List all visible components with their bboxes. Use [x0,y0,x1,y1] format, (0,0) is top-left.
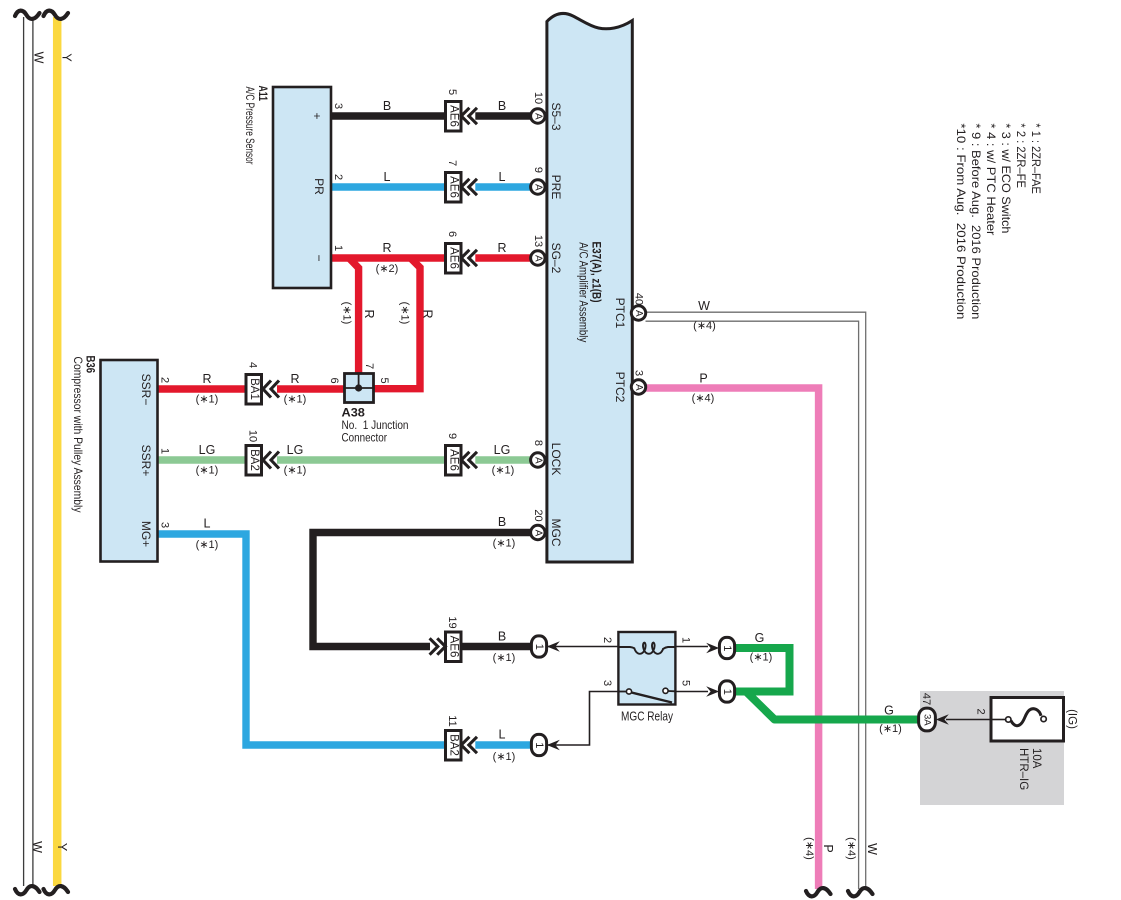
svg-text:R: R [362,309,376,318]
terminal circle 13/A SG-2 [531,235,545,265]
wire P from PTC2: pink, horizontal then vertical [646,388,819,889]
relay switch contact left [618,691,626,693]
svg-text:A: A [633,384,644,391]
svg-text:A11: A11 [256,86,270,102]
break squiggle top of W wire [15,11,40,19]
svg-text:3: 3 [601,680,613,686]
svg-text:1: 1 [721,645,733,651]
connector 5 AE6 [446,89,478,131]
break squiggle bottom of P wire [806,888,831,896]
svg-text:(∗1): (∗1) [750,652,773,664]
svg-text:(∗1): (∗1) [493,538,516,550]
svg-text:* 2 : 2ZR–FE: * 2 : 2ZR–FE [1014,123,1028,187]
connector 4 BA1 [246,362,279,404]
svg-text:SSR−: SSR− [139,374,153,406]
svg-text:3A: 3A [922,714,933,726]
svg-text:3: 3 [633,370,645,376]
svg-text:B: B [498,99,506,113]
svg-text:* 3 : w/ ECO Switch: * 3 : w/ ECO Switch [999,123,1013,233]
svg-text:11: 11 [446,715,458,726]
svg-text:10: 10 [532,92,544,104]
break squiggle top of Y wire [44,11,69,19]
svg-text:*10 : From Aug. 2016 Producti: *10 : From Aug. 2016 Production [954,123,968,319]
svg-text:LOCK: LOCK [549,443,563,476]
terminal oval 3A at fuse 47 [919,693,936,731]
svg-text:AE6: AE6 [448,449,460,471]
svg-text:PRE: PRE [549,175,563,200]
svg-text:A: A [532,457,543,464]
svg-text:R: R [497,241,506,255]
svg-text:BA2: BA2 [448,734,460,756]
svg-text:W: W [32,52,46,64]
svg-text:W: W [30,841,44,853]
relay MGC box [618,632,675,705]
svg-text:BA2: BA2 [248,449,260,471]
svg-text:SG–2: SG–2 [549,243,563,274]
svg-text:1: 1 [159,448,171,454]
wire B from 5AE6 to terminal 10 [475,112,530,119]
svg-text:2: 2 [601,637,613,643]
svg-text:BA1: BA1 [248,378,260,400]
terminal circle 9/A PRE [531,167,545,194]
svg-text:3: 3 [159,522,171,528]
svg-text:(∗1): (∗1) [399,302,411,325]
thin wire from relay pin1 to right oval [676,646,708,648]
svg-text:S5–3: S5–3 [549,102,563,130]
oval terminal 1 (black wire) [531,636,546,657]
arrowhead right of black oval [547,641,560,651]
svg-text:19: 19 [446,616,458,628]
svg-text:HTR–IG: HTR–IG [1017,748,1029,790]
fuse block grey background [920,691,1064,805]
svg-text:A: A [633,310,644,317]
block E37 A/C Amplifier Assembly (wavy top) [547,14,632,562]
svg-text:Compressor with Pulley Assembl: Compressor with Pulley Assembly [71,357,85,513]
svg-text:* 4 : w/ PTC Heater: * 4 : w/ PTC Heater [984,123,998,235]
wire L from B36 MG+ down and right to 11BA2 [157,534,446,745]
svg-text:R: R [290,372,299,386]
wire B from 19AE6 to oval terminal [462,643,533,650]
wire Y left vertical (yellow) [53,17,62,886]
svg-text:(∗1): (∗1) [196,465,219,477]
wire R branch right vertical to A38 pin5 [374,258,420,389]
arrowhead left of relay pin1 oval [706,643,719,653]
arrowhead right of 3A oval [936,714,949,724]
thin wire from 3A terminal to fuse [946,719,991,721]
connector 19 AE6 (chevrons on left pointing right) [430,616,461,661]
svg-text:MG+: MG+ [139,521,153,547]
svg-text:(∗4): (∗4) [845,837,857,860]
svg-text:4: 4 [247,362,259,368]
svg-text:* 9 : Before Aug. 2016 Produc: * 9 : Before Aug. 2016 Production [969,123,983,319]
arrowhead left of relay pin5 oval [706,686,719,696]
svg-text:A/C Amplifier Assembly: A/C Amplifier Assembly [577,242,591,342]
svg-text:A: A [532,184,543,191]
relay coil [618,643,675,654]
svg-text:(∗1): (∗1) [196,539,219,551]
wire R from 6AE6 to terminal 13 [475,254,530,261]
terminal circle 40/A PTC1 [631,293,645,320]
block A38 No.1 Junction Connector [345,374,374,403]
svg-text:L: L [499,728,506,742]
terminal circle 8/A LOCK [531,440,545,467]
wire R from 4BA1 to A38 pin6 [277,385,345,392]
svg-text:(IG): (IG) [1066,709,1078,729]
svg-text:1: 1 [680,637,692,643]
svg-text:2: 2 [332,174,344,180]
svg-text:P: P [699,372,707,386]
svg-text:L: L [384,170,391,184]
svg-text:(∗1): (∗1) [492,465,515,477]
svg-text:(∗1): (∗1) [879,723,902,735]
svg-text:(∗2): (∗2) [376,263,399,275]
svg-text:AE6: AE6 [448,176,460,198]
svg-text:1: 1 [721,689,733,695]
wire B from A11 pin3 to connector 5AE6 [331,112,446,119]
oval terminal 1 (relay pin5) [719,681,734,702]
svg-text:R: R [421,309,435,318]
svg-text:Y: Y [60,53,74,62]
svg-text:1: 1 [533,742,545,748]
svg-text:9: 9 [532,167,544,173]
wire G from pin5 oval diagonal down to fuse 47 [735,692,918,720]
svg-text:Connector: Connector [342,431,388,445]
oval terminal 1 (relay pin1) [719,637,734,658]
svg-text:A: A [532,255,543,262]
connector 7 AE6 [446,160,478,202]
relay switch blade [632,693,673,703]
svg-text:5: 5 [680,680,692,686]
svg-text:R: R [202,372,211,386]
svg-text:(∗4): (∗4) [693,320,716,332]
svg-text:9: 9 [446,433,458,439]
block B36 Compressor with Pulley Assembly [101,360,158,562]
connector 11 BA2 [446,715,478,760]
svg-text:MGC: MGC [549,519,563,547]
svg-text:5: 5 [446,89,458,95]
svg-text:(∗4): (∗4) [803,837,815,860]
svg-text:W: W [865,843,879,855]
svg-text:10A: 10A [1030,748,1042,769]
break squiggle bottom of W wire [15,886,40,894]
svg-text:1: 1 [533,644,545,650]
svg-text:B: B [498,630,506,644]
relay switch contact right [663,688,668,693]
svg-text:B: B [383,99,391,113]
thin wire from relay pin5 to right oval [676,691,708,693]
svg-text:40: 40 [633,293,645,305]
svg-text:A/C Pressure Sensor: A/C Pressure Sensor [243,87,257,165]
svg-text:6: 6 [446,231,458,237]
junction lines inside A38 [345,374,373,388]
svg-text:L: L [204,517,211,531]
wire R branch left vertical to A38 pin7 [349,258,359,374]
oval terminal 1 (blue wire) [531,734,546,755]
terminal circle 10/A S5-3 [531,92,545,123]
svg-text:−: − [312,254,326,261]
junction dot A38 [355,384,362,391]
wire R from A11 pin1 to connector 6AE6 [331,254,446,261]
svg-text:(∗4): (∗4) [692,393,715,405]
svg-text:LG: LG [494,443,511,457]
svg-text:13: 13 [532,235,544,247]
connector 9 AE6 [446,433,478,475]
svg-text:LG: LG [199,443,216,457]
svg-text:B: B [498,515,506,529]
thin wire from blue oval to relay pin3 [546,692,618,746]
svg-text:PTC1: PTC1 [613,298,627,329]
svg-text:A: A [532,530,543,537]
svg-text:7: 7 [446,160,458,166]
svg-text:P: P [821,844,835,852]
svg-text:* 1 : 2ZR–FAE: * 1 : 2ZR–FAE [1029,123,1043,193]
svg-text:(∗1): (∗1) [196,394,219,406]
connector 6 AE6 [446,231,478,273]
wire R from B36 SSR- to connector 4BA1 [157,385,246,392]
svg-text:MGC Relay: MGC Relay [621,710,674,724]
wire LG from B36 SSR+ to connector 10BA2 [157,456,246,463]
svg-text:Y: Y [55,843,69,852]
fuse element symbol [991,719,1006,721]
wire W left vertical (double line) [24,17,33,886]
wire L from A11 pin2 to connector 7AE6 [331,183,446,190]
svg-text:AE6: AE6 [448,247,460,269]
block A11 A/C Pressure Sensor [273,87,331,288]
svg-text:10: 10 [247,430,259,442]
break squiggle bottom of Y wire [44,886,69,894]
svg-text:PR: PR [312,178,326,195]
svg-text:8: 8 [532,440,544,446]
svg-text:(∗1): (∗1) [341,302,353,325]
arrowhead right of blue oval [547,740,560,750]
connector 10 BA2 [246,430,279,475]
svg-text:E37(A), z1(B): E37(A), z1(B) [590,242,604,303]
svg-text:+: + [310,112,324,119]
svg-text:(∗1): (∗1) [493,751,516,763]
wire L from 11BA2 to oval terminal [475,741,532,748]
svg-text:2: 2 [975,708,987,714]
wire LG from 10BA2 to connector 9AE6 [277,456,446,463]
svg-text:G: G [884,704,894,718]
terminal circle 3/A PTC2 [631,370,645,394]
svg-text:20: 20 [532,509,544,521]
svg-text:L: L [499,170,506,184]
wire G U-loop from relay pin1 oval to pin5 oval [735,648,790,692]
wire LG from 9AE6 to terminal 8 [475,456,530,463]
svg-text:PTC2: PTC2 [613,372,627,403]
svg-text:7: 7 [363,363,375,369]
fuse rectangle [991,698,1064,742]
break squiggle bottom of W right wire [848,888,873,896]
svg-text:LG: LG [287,443,304,457]
terminal circle 20/A MGC [531,509,545,539]
svg-text:3: 3 [332,103,344,109]
svg-text:6: 6 [328,377,340,383]
svg-text:(∗1): (∗1) [284,394,307,406]
svg-text:R: R [382,241,391,255]
svg-text:W: W [698,299,710,313]
svg-text:A: A [532,113,543,120]
wire W from PTC1: horizontal then vertical (double line) [646,312,866,889]
svg-text:AE6: AE6 [448,105,460,127]
thin wire from black oval to relay pin2 [546,646,618,648]
wire L from 7AE6 to terminal 9 [475,183,530,190]
svg-text:(∗1): (∗1) [284,465,307,477]
svg-text:G: G [755,631,765,645]
wire B from MGC terminal down and right to 19AE6 [313,533,531,647]
svg-text:SSR+: SSR+ [139,445,153,477]
svg-text:47: 47 [920,693,932,705]
svg-text:AE6: AE6 [448,636,460,658]
svg-text:(∗1): (∗1) [493,652,516,664]
svg-text:5: 5 [378,377,390,383]
svg-text:1: 1 [332,245,344,251]
svg-text:2: 2 [159,377,171,383]
